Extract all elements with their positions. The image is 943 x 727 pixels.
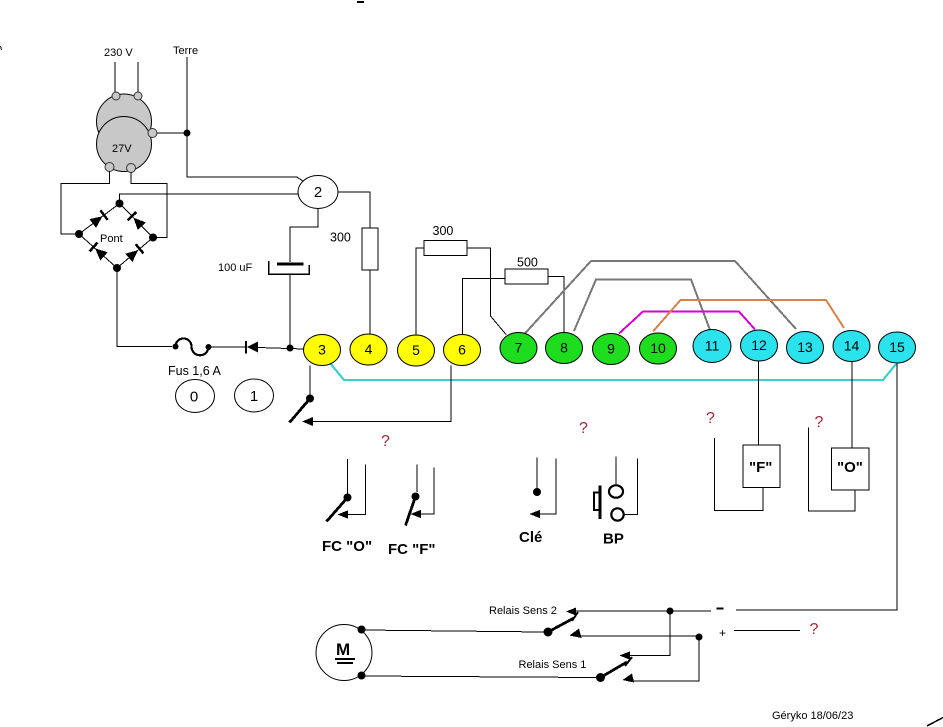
- node Cle contact: [533, 488, 541, 496]
- svg-text:?: ?: [810, 621, 819, 638]
- wire gray terminal 7 to terminal 13: [524, 261, 796, 335]
- wire terminal 3 down to switch S1: [309, 366, 311, 399]
- terminal 10: [640, 333, 677, 364]
- switch FC O arm: [327, 498, 348, 522]
- wire Terre down and right to node 2: [187, 57, 307, 184]
- relay1 NO contact arrow: [623, 674, 635, 683]
- push button BP contact ring bottom: [611, 508, 623, 520]
- transformer T1 primary winding: [97, 94, 152, 149]
- terminal 7: [500, 333, 537, 364]
- node bridge AC left: [75, 230, 83, 238]
- relay2 NO contact arrow on plus line: [570, 629, 582, 639]
- node motor terminal bottom: [358, 672, 366, 680]
- resistor R2 300 horizontal: [424, 241, 467, 256]
- node bridge AC right: [149, 234, 157, 242]
- svg-text:15: 15: [889, 339, 905, 355]
- terminal 3: [304, 335, 341, 366]
- svg-text:Relais Sens 1: Relais Sens 1: [519, 659, 587, 671]
- transformer terminal secondary pin B: [127, 164, 136, 173]
- wire secondary A to bridge AC left: [61, 171, 110, 234]
- terminal circle 1: [235, 379, 274, 412]
- diode bridge bottom-right: [125, 244, 143, 262]
- push button BP contact ring top: [609, 485, 623, 497]
- key switch Cle left leg: [536, 458, 538, 489]
- label question mark 2: [579, 420, 588, 437]
- wire terminal 12 down to relay F: [758, 361, 760, 445]
- label signature Geryko: [772, 710, 853, 722]
- svg-text:3: 3: [318, 342, 326, 358]
- junction earth / secondary: [184, 130, 191, 137]
- wire bridge side top-left: [79, 204, 120, 235]
- wire 230V phase right: [137, 62, 139, 92]
- node switch S1 pivot: [306, 395, 314, 403]
- svg-text:0: 0: [190, 389, 198, 406]
- motor M1: [316, 625, 372, 681]
- label Relais Sens 1: [519, 659, 587, 671]
- wire node 2 right to resistor R1: [338, 192, 370, 228]
- terminal circle 0: [176, 380, 215, 413]
- stray mark top-left edge: [1, 46, 2, 50]
- wire FC O right leg with arrow: [338, 465, 366, 519]
- resistor R1 300 vertical: [362, 228, 378, 270]
- terminal 11: [693, 330, 731, 363]
- wire minus line left segment: [573, 610, 711, 612]
- wire terminal 15 down to minus line: [736, 363, 897, 610]
- label BP: [603, 531, 624, 548]
- label question mark 4: [815, 414, 824, 431]
- diode bridge bottom-left: [90, 243, 108, 261]
- svg-text:230 V: 230 V: [104, 47, 133, 59]
- svg-text:"F": "F": [749, 459, 772, 476]
- wire relay F return loop: [715, 438, 764, 511]
- wire secondary midpoint to earth line: [157, 132, 184, 134]
- svg-text:?: ?: [706, 410, 715, 427]
- node bridge minus (bottom): [113, 264, 121, 272]
- wire fuse to diode: [211, 346, 245, 348]
- wire plus line left segment: [580, 635, 699, 637]
- label FC "F": [388, 541, 436, 558]
- fuse Fus 1,6 A: [173, 339, 212, 356]
- terminal 5: [398, 335, 435, 366]
- wire FC F right leg with arrow: [411, 468, 435, 519]
- terminal 14: [833, 331, 870, 362]
- label question mark 1: [381, 433, 390, 450]
- svg-text:300: 300: [433, 224, 454, 238]
- wire secondary B to bridge AC right: [131, 172, 167, 238]
- wire bridge side bottom-left: [79, 234, 117, 268]
- wire terminal 6 up to resistor R3: [463, 279, 506, 335]
- svg-text:13: 13: [797, 339, 813, 355]
- svg-text:10: 10: [650, 340, 666, 356]
- svg-text:Géryko 18/06/23: Géryko 18/06/23: [772, 710, 853, 722]
- svg-text:27V: 27V: [112, 143, 132, 155]
- svg-text:"O": "O": [837, 459, 863, 476]
- label Cle: [519, 529, 542, 546]
- limit switch FC F left leg: [416, 465, 418, 493]
- wire 230V phase left: [114, 62, 116, 92]
- limit switch FC O left leg: [347, 459, 349, 494]
- stray mark bottom-right: [927, 718, 943, 727]
- svg-text:2: 2: [314, 184, 322, 201]
- wire Cle right leg with arrow: [530, 459, 557, 519]
- wire junction up to capacitor: [289, 274, 291, 345]
- wire terminal 6 down left to switch S1 with arrow: [302, 366, 451, 427]
- label 100 uF: [218, 262, 253, 274]
- node FC F pivot: [412, 493, 420, 501]
- wire orange terminal 10 to terminal 14: [653, 300, 844, 332]
- switch FC F arm: [406, 497, 416, 526]
- terminal 4: [350, 334, 387, 365]
- svg-text:1: 1: [250, 388, 258, 405]
- terminal 15: [879, 332, 916, 363]
- svg-text:?: ?: [579, 420, 588, 437]
- svg-text:FC "O": FC "O": [322, 538, 372, 555]
- relay coil box F: [743, 445, 780, 488]
- svg-text:5: 5: [412, 342, 420, 358]
- diode bridge top-right: [128, 212, 146, 230]
- capacitor C1 100 uF: [269, 261, 310, 274]
- push button BP left leg: [615, 457, 617, 485]
- node 2 terminal: [298, 176, 338, 209]
- diode D5 series: [246, 341, 258, 354]
- svg-text:Pont: Pont: [100, 233, 123, 245]
- terminal 12: [741, 330, 778, 361]
- node relay1 pivot: [596, 673, 605, 682]
- svg-text:12: 12: [751, 337, 767, 353]
- wire magenta terminal 9 to terminal 12: [619, 312, 755, 334]
- wire junction down to relay1 arm line: [620, 611, 671, 660]
- relay2 arm: [548, 608, 578, 633]
- junction capacitor tap: [287, 345, 294, 352]
- label question mark 5: [810, 621, 819, 638]
- wire R2 right down to terminal 7: [467, 248, 506, 335]
- label FC "O": [322, 538, 372, 555]
- svg-text:9: 9: [607, 341, 615, 357]
- label Fus 1,6 A: [168, 364, 221, 378]
- terminal 9: [593, 334, 630, 365]
- label Terre: [173, 45, 198, 57]
- node relay2 pivot: [544, 628, 553, 637]
- svg-text:+: +: [719, 626, 726, 640]
- svg-text:?: ?: [815, 414, 824, 431]
- relay coil box O: [832, 448, 870, 490]
- wire plus junction down to relay1 NO line: [633, 637, 699, 681]
- svg-text:4: 4: [365, 341, 373, 357]
- label 300 R2: [433, 224, 454, 238]
- wire motor bottom to relay1 pivot: [362, 676, 597, 678]
- stray mark top edge: [357, 1, 364, 3]
- relay1 arm: [601, 652, 633, 678]
- svg-text:8: 8: [560, 340, 568, 356]
- wire R3 right down to terminal 8: [548, 277, 564, 334]
- svg-text:FC "F": FC "F": [388, 541, 436, 558]
- resistor R3 500: [505, 269, 548, 284]
- svg-text:BP: BP: [603, 531, 624, 548]
- wire terminal 5 up to resistor R2: [416, 248, 424, 335]
- svg-text:Fus 1,6 A: Fus 1,6 A: [168, 364, 221, 378]
- wire terminal 14 down to relay O: [851, 362, 853, 449]
- junction plus branch: [696, 634, 703, 641]
- wire motor top to relay2 pivot: [362, 630, 544, 632]
- transformer terminal primary pin 1: [112, 92, 120, 100]
- svg-text:Clé: Clé: [519, 529, 542, 546]
- svg-text:11: 11: [705, 338, 720, 354]
- wire bridge minus down to fuse: [117, 268, 172, 347]
- wire diode to terminal 3: [258, 348, 304, 350]
- wire R1 down to terminal 4: [369, 270, 371, 334]
- node motor terminal top: [358, 626, 366, 634]
- svg-text:M: M: [336, 640, 350, 659]
- wire bridge side bottom-right: [117, 238, 153, 269]
- svg-text:300: 300: [330, 231, 351, 245]
- label question mark 3: [706, 410, 715, 427]
- svg-text:7: 7: [515, 340, 523, 356]
- label 230 V: [104, 47, 133, 59]
- terminal 13: [787, 332, 824, 364]
- wire bridge plus up and right to node 2: [120, 194, 299, 204]
- label minus: [717, 608, 724, 610]
- terminal 8: [546, 333, 583, 364]
- switch S1 arm: [290, 399, 311, 423]
- svg-text:100 uF: 100 uF: [218, 262, 253, 274]
- wire cyan bus terminal 3 to terminal 15: [330, 363, 896, 380]
- push button BP plunger: [594, 486, 600, 520]
- diode bridge top-left: [89, 210, 107, 228]
- junction minus to relay1 branch: [667, 608, 674, 615]
- svg-text:Relais Sens 2: Relais Sens 2: [489, 605, 557, 617]
- label Pont: [100, 233, 123, 245]
- transformer terminal secondary pin A: [105, 163, 114, 172]
- label Relais Sens 2: [489, 605, 557, 617]
- terminal 6: [444, 335, 481, 366]
- node FC O pivot: [344, 494, 352, 502]
- wire plus line right segment: [734, 630, 800, 632]
- wire bridge side top-right: [120, 204, 154, 238]
- wire BP right leg: [624, 459, 638, 515]
- svg-text:6: 6: [458, 342, 466, 358]
- svg-text:14: 14: [844, 338, 860, 354]
- wire capacitor up to node 2 bottom: [290, 209, 318, 262]
- node bridge plus (top): [116, 200, 124, 208]
- transformer terminal secondary earth pin: [148, 129, 157, 138]
- wire relay O return loop: [809, 428, 856, 512]
- label plus: [719, 626, 726, 640]
- label 500 R3: [517, 256, 538, 270]
- transformer terminal primary pin 2: [134, 92, 142, 100]
- wire gray terminal 8 to terminal 11: [574, 280, 710, 332]
- svg-text:?: ?: [381, 433, 390, 450]
- svg-text:Terre: Terre: [173, 45, 198, 57]
- svg-text:500: 500: [517, 256, 538, 270]
- transformer T1 secondary winding 27V: [97, 117, 152, 172]
- label 300 R1: [330, 231, 351, 245]
